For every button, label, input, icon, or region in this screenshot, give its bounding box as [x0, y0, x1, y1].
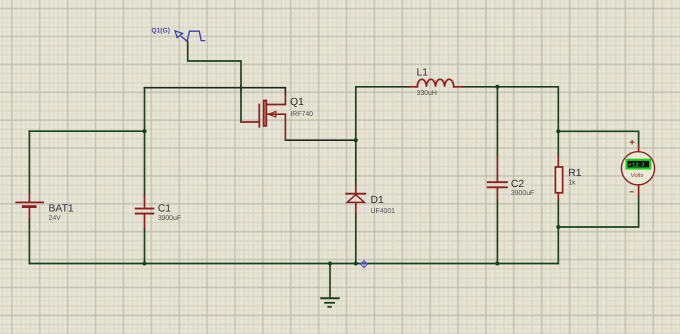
svg-text:3900uF: 3900uF [158, 215, 181, 222]
svg-text:Q1(G): Q1(G) [151, 27, 170, 34]
svg-text:R1: R1 [568, 168, 582, 179]
svg-text:UF4001: UF4001 [371, 208, 396, 215]
svg-text:330uH: 330uH [417, 90, 437, 97]
svg-text:IRF740: IRF740 [290, 111, 313, 118]
svg-text:24V: 24V [49, 215, 62, 222]
svg-text:D1: D1 [371, 195, 385, 206]
svg-text:BAT1: BAT1 [49, 203, 74, 214]
svg-text:L1: L1 [417, 67, 429, 78]
svg-text:C1: C1 [158, 204, 172, 215]
svg-text:C2: C2 [511, 179, 525, 190]
svg-text:3900uF: 3900uF [511, 190, 534, 197]
svg-text:1k: 1k [568, 180, 576, 187]
svg-text:Volts: Volts [631, 172, 644, 179]
svg-text:+12.7: +12.7 [628, 162, 645, 168]
svg-text:Q1: Q1 [290, 97, 304, 108]
